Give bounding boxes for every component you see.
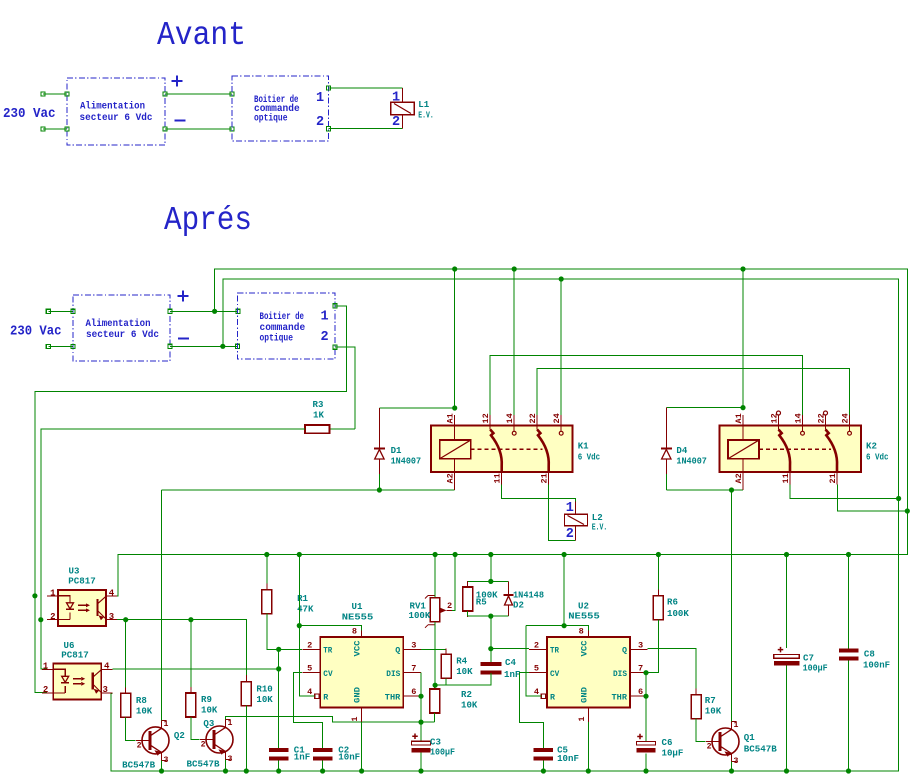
svg-text:PC817: PC817 — [68, 576, 96, 587]
svg-text:2: 2 — [534, 640, 539, 650]
resistor R4 — [445, 648, 447, 654]
svg-text:NE555: NE555 — [342, 612, 374, 623]
junction U1 THR — [418, 694, 423, 699]
wire K2 A1 from rail — [742, 269, 744, 408]
svg-text:1: 1 — [392, 91, 400, 106]
pin square — [235, 344, 239, 348]
wire K1 pin12 link — [490, 356, 802, 415]
svg-text:D1: D1 — [391, 445, 402, 456]
junction U1 gnd — [359, 768, 364, 773]
svg-text:10K: 10K — [201, 705, 218, 716]
svg-text:1nF: 1nF — [294, 752, 310, 763]
wire +6V mid rail — [117, 511, 907, 596]
svg-text:NE555: NE555 — [568, 611, 600, 622]
svg-text:21: 21 — [828, 473, 838, 483]
wire gnd alim to boitier — [170, 345, 237, 347]
svg-text:3: 3 — [638, 640, 643, 650]
wire U1 pin8 — [299, 626, 361, 631]
svg-text:A2: A2 — [446, 473, 456, 483]
svg-text:1: 1 — [734, 721, 739, 730]
pin square — [71, 344, 75, 348]
wire U2 Q to R7 — [648, 649, 697, 695]
wire K1 pin24 from rail2 — [560, 279, 562, 415]
wire U1 DIS THR down — [420, 673, 422, 742]
svg-text:1nF: 1nF — [504, 669, 520, 680]
wire R9 top lead — [190, 620, 192, 693]
wire +6V alim to boitier — [170, 310, 238, 312]
junction Q3 emitter — [223, 768, 228, 773]
svg-text:BC547B: BC547B — [122, 760, 156, 771]
opto U6 body — [53, 664, 101, 700]
svg-text:11: 11 — [493, 473, 503, 483]
wire R5 bottom lead — [467, 611, 469, 616]
svg-text:Aprés: Aprés — [164, 202, 252, 239]
wire U2 vcc feed — [563, 555, 565, 626]
pin square — [230, 92, 234, 96]
junction R9 top — [188, 617, 193, 622]
svg-text:R8: R8 — [136, 695, 147, 706]
junction C7 gnd — [784, 768, 789, 773]
transistor Q3 — [206, 726, 233, 755]
svg-text:4: 4 — [109, 589, 115, 599]
wire U2 DIS node — [648, 625, 659, 673]
wire RV1 wiper up — [452, 555, 455, 611]
junction U1 vcc — [297, 623, 302, 628]
svg-text:TR: TR — [550, 646, 560, 656]
wire U3 pin3 net — [117, 620, 246, 675]
relay K1 — [431, 425, 573, 472]
svg-text:1: 1 — [228, 719, 233, 728]
wire C5 bottom — [542, 760, 544, 771]
wire C7 top — [786, 555, 788, 649]
junction — [559, 276, 564, 281]
svg-text:3: 3 — [411, 640, 416, 650]
junction — [896, 496, 901, 501]
junction — [512, 266, 517, 271]
wire + to boitier (avant) — [165, 93, 232, 95]
svg-text:GND: GND — [579, 687, 589, 703]
wire U2 reset feed — [526, 626, 542, 697]
pin square — [333, 304, 337, 308]
wire RV1 top — [434, 555, 436, 598]
junction R5D2 top — [488, 552, 493, 557]
svg-text:1: 1 — [50, 589, 56, 599]
wire Q3 emitter down — [225, 760, 227, 772]
pin square — [236, 309, 240, 313]
junction — [297, 552, 302, 557]
svg-text:A2: A2 — [734, 473, 744, 483]
svg-text:2: 2 — [201, 741, 206, 750]
svg-text:3: 3 — [228, 755, 233, 764]
svg-text:DIS: DIS — [386, 669, 400, 679]
junction — [220, 344, 225, 349]
svg-text:24: 24 — [840, 413, 850, 423]
pin square — [65, 92, 69, 96]
wire C1 bottom — [278, 760, 280, 771]
transistor Q2 — [142, 727, 169, 756]
wire U2 TR — [491, 648, 529, 650]
resistor R7 — [695, 689, 697, 695]
pin square — [168, 344, 172, 348]
svg-text:1: 1 — [350, 717, 360, 722]
svg-text:10K: 10K — [256, 694, 273, 705]
junction D1 anode — [377, 487, 382, 492]
svg-text:3: 3 — [734, 757, 739, 766]
svg-text:5: 5 — [307, 664, 312, 674]
junction TR C1 — [276, 647, 281, 652]
capacitor C6 — [637, 734, 643, 740]
resistor R1 — [266, 584, 268, 590]
svg-text:10µF: 10µF — [662, 748, 684, 759]
resistor R2 — [434, 683, 436, 689]
junction — [212, 309, 217, 314]
relay coil L2 — [574, 501, 576, 514]
svg-text:2: 2 — [43, 685, 48, 695]
junction C2 gnd — [320, 768, 325, 773]
svg-text:E.V.: E.V. — [592, 522, 608, 533]
wire 230Vac bottom stub (apres) — [48, 346, 73, 348]
svg-text:8: 8 — [352, 627, 357, 637]
svg-text:BC547B: BC547B — [744, 744, 778, 755]
wire K2 pin11 out — [790, 485, 899, 499]
wire R4 bottom — [446, 678, 491, 685]
svg-text:GND: GND — [353, 687, 363, 703]
svg-text:optique: optique — [254, 113, 288, 124]
junction U2 TR node — [488, 646, 493, 651]
wire Q1 collector up — [731, 490, 733, 722]
svg-text:C6: C6 — [662, 737, 673, 748]
svg-text:1: 1 — [43, 661, 49, 671]
wire U1 Q to R4 — [421, 649, 446, 654]
resistor R3 — [305, 425, 330, 433]
junction RV1 wiper — [453, 552, 458, 557]
junction — [452, 266, 457, 271]
junction U6 pin4 — [276, 666, 281, 671]
wire C3 bottom — [420, 752, 422, 771]
svg-text:1N4007: 1N4007 — [391, 456, 422, 467]
svg-text:Boitier de: Boitier de — [260, 311, 305, 322]
wire K2 A2 wire — [666, 489, 743, 491]
diode D2 — [508, 581, 510, 595]
wire C4 top — [490, 616, 492, 662]
wire D1 top — [379, 407, 454, 409]
capacitor C4 — [480, 662, 501, 666]
svg-text:10K: 10K — [461, 700, 478, 711]
junction Q1 branch — [729, 487, 734, 492]
wire rail2 — [223, 279, 899, 499]
svg-text:C4: C4 — [505, 657, 516, 668]
svg-text:C8: C8 — [864, 649, 875, 660]
svg-text:commande: commande — [260, 322, 306, 333]
svg-text:THR: THR — [385, 693, 402, 703]
wire R1 top lead — [266, 555, 268, 590]
wire 230Vac top stub (avant) — [43, 93, 67, 95]
svg-text:230 Vac: 230 Vac — [3, 107, 56, 122]
svg-text:CV: CV — [550, 669, 560, 679]
diode D4 — [665, 408, 667, 449]
capacitor C3 — [412, 734, 418, 740]
svg-text:Avant: Avant — [157, 17, 246, 54]
block Boitier de commande optique (apres) — [237, 293, 335, 359]
svg-text:21: 21 — [540, 473, 550, 483]
junction C1 gnd — [276, 768, 281, 773]
wire +6V rail1 — [215, 269, 908, 511]
junction C8 gnd — [846, 768, 851, 773]
svg-text:2: 2 — [392, 115, 400, 130]
svg-text:1: 1 — [316, 91, 324, 106]
wire U2 pin8 wire — [526, 626, 589, 631]
svg-text:E.V.: E.V. — [418, 109, 434, 120]
junction C8 top — [846, 552, 851, 557]
IC U1 NE555 — [320, 637, 403, 708]
svg-text:22: 22 — [528, 413, 538, 423]
svg-text:2: 2 — [707, 743, 712, 752]
wire R1 bottom to TR — [267, 614, 302, 650]
junction — [740, 266, 745, 271]
pin square — [46, 309, 50, 313]
svg-text:10nF: 10nF — [338, 752, 360, 763]
svg-text:7: 7 — [411, 664, 416, 674]
wire R10 top lead — [245, 675, 247, 682]
junction U2 gnd — [586, 768, 591, 773]
junction R8 top — [123, 617, 128, 622]
svg-text:optique: optique — [260, 333, 294, 344]
svg-text:4: 4 — [104, 661, 110, 671]
junction — [562, 552, 567, 557]
svg-text:10nF: 10nF — [557, 753, 579, 764]
svg-text:10K: 10K — [456, 666, 473, 677]
plus symbol (avant) — [172, 76, 183, 87]
svg-text:R3: R3 — [313, 399, 324, 410]
svg-text:DIS: DIS — [613, 669, 627, 679]
svg-text:100K: 100K — [667, 608, 689, 619]
wire U1 gnd down — [361, 722, 363, 771]
svg-text:BC547B: BC547B — [187, 759, 221, 770]
wire U2 gnd down — [587, 722, 589, 771]
svg-text:U1: U1 — [352, 601, 363, 612]
svg-text:D2: D2 — [513, 600, 524, 611]
pin square — [41, 127, 45, 131]
wire Q3 collector up — [226, 716, 435, 722]
wire C8 bottom — [848, 661, 850, 771]
minus symbol (avant) — [175, 120, 186, 122]
svg-text:3: 3 — [164, 756, 169, 765]
wire R3 left — [41, 429, 305, 669]
wire K2 pin21 out — [838, 485, 908, 512]
junction U3 pin1 — [32, 593, 37, 598]
wire R3 right — [330, 428, 356, 430]
wire U2 DIS THR down — [645, 673, 647, 742]
svg-text:R9: R9 — [201, 694, 212, 705]
svg-text:Q: Q — [622, 646, 627, 656]
svg-text:24: 24 — [552, 413, 562, 423]
wire RV1 pin3 down — [434, 622, 436, 689]
wire 230Vac bottom stub (avant) — [43, 128, 67, 130]
wire R5 top lead — [467, 581, 469, 587]
junction — [488, 579, 493, 584]
block Alimentation secteur 6 Vdc (apres) — [73, 295, 170, 361]
wire R5D2 bottom bar — [468, 615, 509, 617]
junction C5 gnd — [541, 768, 546, 773]
junction R6 top — [656, 552, 661, 557]
junction Q2 emitter — [159, 768, 164, 773]
junction C7 top — [784, 552, 789, 557]
wire gnd rail — [111, 499, 899, 772]
wire U1 vcc/reset feed — [299, 555, 314, 697]
svg-text:A1: A1 — [446, 413, 456, 423]
capacitor C8 — [839, 648, 859, 652]
pin square — [71, 309, 75, 313]
svg-text:2: 2 — [307, 640, 312, 650]
svg-text:6 Vdc: 6 Vdc — [866, 452, 889, 463]
svg-text:2: 2 — [316, 115, 324, 130]
junction — [905, 508, 910, 513]
svg-text:6 Vdc: 6 Vdc — [578, 452, 601, 463]
svg-text:100nF: 100nF — [863, 660, 890, 671]
svg-text:6: 6 — [411, 687, 416, 697]
svg-text:R10: R10 — [256, 684, 272, 695]
wire K1 A2 rail — [161, 489, 454, 491]
capacitor C5 — [534, 748, 554, 752]
pin square — [163, 127, 167, 131]
svg-text:Q2: Q2 — [174, 730, 185, 741]
junction — [740, 405, 745, 410]
wire K1 pin21 to L2 — [549, 485, 576, 541]
svg-text:Q: Q — [395, 646, 400, 656]
block Alimentation secteur 6 Vdc (avant) — [67, 78, 165, 145]
pin square — [168, 309, 172, 313]
wire C4 bottom — [435, 673, 491, 685]
svg-text:secteur 6 Vdc: secteur 6 Vdc — [80, 112, 153, 124]
wire R8 bottom to Q2 base — [126, 717, 136, 740]
wire K1 pin22 link — [537, 369, 849, 415]
svg-text:2: 2 — [321, 330, 329, 345]
svg-text:PC817: PC817 — [61, 650, 89, 661]
svg-text:1K: 1K — [313, 410, 324, 421]
svg-text:6: 6 — [638, 687, 643, 697]
svg-text:secteur 6 Vdc: secteur 6 Vdc — [86, 329, 159, 341]
svg-text:5: 5 — [534, 664, 539, 674]
svg-text:230 Vac: 230 Vac — [10, 325, 62, 340]
svg-text:11: 11 — [781, 473, 791, 483]
junction C6 gnd — [643, 768, 648, 773]
svg-text:2: 2 — [50, 612, 55, 622]
opto U3 body — [58, 590, 106, 626]
junction C3 gnd — [418, 768, 423, 773]
svg-text:3: 3 — [109, 612, 114, 622]
opto U6 symbol — [42, 668, 53, 670]
plus symbol (apres) — [178, 291, 189, 302]
wire boitier pin1 to L1 — [329, 87, 403, 89]
junction R4C4 node — [433, 683, 438, 688]
pin square — [41, 92, 45, 96]
svg-text:12: 12 — [481, 413, 491, 423]
wire D4 top — [666, 407, 743, 409]
pin square — [46, 344, 50, 348]
junction — [488, 614, 493, 619]
wire R9 bottom to Q3 base — [191, 717, 200, 740]
capacitor C7 — [778, 647, 784, 653]
resistor R6 — [657, 590, 659, 596]
wire Q1 emitter down — [731, 762, 733, 772]
svg-text:2: 2 — [566, 527, 574, 542]
svg-text:3: 3 — [103, 685, 108, 695]
wire R6 top — [657, 555, 659, 596]
svg-text:10K: 10K — [705, 706, 722, 717]
trimmer RV1 — [430, 598, 440, 622]
pin square — [326, 86, 330, 90]
wire K1 pin11 to L2 — [502, 485, 576, 502]
svg-text:1: 1 — [321, 310, 329, 325]
svg-text:Q3: Q3 — [203, 718, 214, 729]
svg-text:R6: R6 — [667, 597, 678, 608]
capacitor C2 — [313, 748, 333, 752]
wire 230Vac top stub (apres) — [48, 310, 73, 312]
opto U3 symbol — [47, 595, 58, 597]
svg-text:A1: A1 — [734, 413, 744, 423]
minus symbol (apres) — [178, 338, 189, 340]
wire C1 branch — [278, 649, 280, 748]
block Boitier de commande optique (avant) — [232, 76, 329, 141]
wire Q2 collector up — [161, 490, 163, 720]
resistor R8 — [125, 687, 127, 693]
svg-text:R4: R4 — [456, 656, 467, 667]
svg-text:VCC: VCC — [579, 641, 589, 657]
junction U2 THR — [643, 694, 648, 699]
svg-text:100µF: 100µF — [430, 747, 455, 758]
diode D1 — [378, 408, 380, 449]
svg-text:1N4007: 1N4007 — [676, 456, 707, 467]
svg-text:R2: R2 — [461, 689, 472, 700]
transistor Q1 — [712, 728, 739, 757]
wire R5D2 feed — [490, 555, 492, 582]
junction — [452, 405, 457, 410]
svg-text:K2: K2 — [866, 441, 877, 452]
svg-text:Alimentation: Alimentation — [80, 101, 145, 113]
junction RV1 top — [433, 552, 438, 557]
wire R2 bottom — [434, 713, 436, 722]
pin square — [65, 127, 69, 131]
svg-text:R5: R5 — [476, 597, 487, 608]
wire boitier pin1 output — [35, 306, 347, 693]
svg-text:R7: R7 — [705, 695, 716, 706]
resistor R9 — [190, 687, 192, 693]
svg-text:Q1: Q1 — [744, 732, 755, 743]
pin square — [326, 127, 330, 131]
svg-text:TR: TR — [323, 646, 333, 656]
svg-text:CV: CV — [323, 669, 333, 679]
svg-text:10K: 10K — [136, 706, 153, 717]
svg-text:THR: THR — [612, 693, 629, 703]
wire C7 bottom — [786, 666, 788, 771]
svg-text:7: 7 — [638, 664, 643, 674]
capacitor C1 — [269, 748, 289, 752]
svg-text:2: 2 — [447, 601, 452, 611]
junction U2 vcc — [562, 623, 567, 628]
relay K2 — [719, 425, 861, 472]
wire boitier pin2 output — [335, 347, 355, 429]
wire boitier pin2 to L1 — [329, 128, 403, 130]
wire C6 bottom — [645, 754, 647, 772]
svg-text:D4: D4 — [676, 445, 687, 456]
wire K1 pin14 from rail1 — [513, 269, 515, 415]
wire K1 A1 from rail — [454, 269, 456, 408]
pin square — [163, 92, 167, 96]
wire R7 bottom to Q1 base — [696, 719, 705, 742]
wire U2 CV to C5 — [519, 673, 543, 748]
wire R5D2 top bar — [468, 580, 509, 582]
junction U2 DIS — [643, 670, 648, 675]
